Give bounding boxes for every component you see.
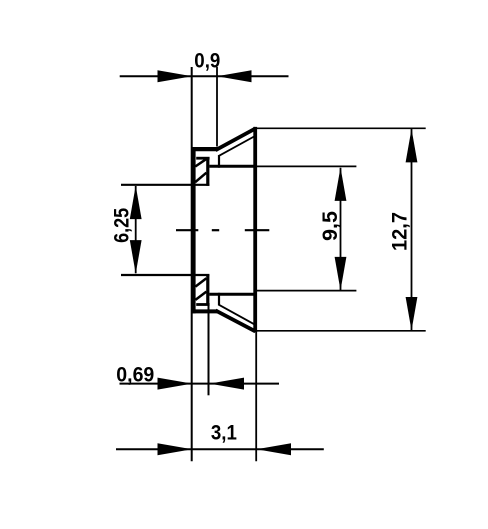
arrow 0,69 left — [158, 378, 193, 390]
label 12,7 — [388, 212, 411, 251]
arrow 6,25 bottom — [130, 240, 142, 274]
label 6,25 — [110, 208, 133, 243]
arrow 12,7 bottom — [406, 297, 418, 331]
arrow 9,5 top — [335, 167, 347, 201]
svg-text:0,9: 0,9 — [194, 50, 220, 73]
arrow 3,1 left — [158, 443, 193, 455]
arrow 3,1 right — [257, 443, 291, 455]
bottom face — [192, 309, 217, 313]
hatch upper band — [195, 159, 206, 182]
svg-text:3,1: 3,1 — [211, 422, 237, 445]
dimension line 0,9 — [120, 75, 289, 77]
dimension line 9,5 — [340, 168, 342, 290]
extension line 0,9 right — [216, 67, 218, 147]
svg-text:9,5: 9,5 — [319, 211, 342, 241]
outer cone lower — [216, 310, 256, 331]
extension line 3,1 right — [255, 332, 257, 462]
extension line dia 6,25 lower — [121, 274, 209, 276]
svg-text:6,25: 6,25 — [110, 208, 133, 243]
extension line dia 6,25 upper — [121, 184, 209, 186]
inner shoulder line upper — [196, 157, 209, 160]
top face — [192, 147, 217, 151]
sleeve wall right edge lower — [206, 275, 209, 306]
dimension line 6,25 — [135, 186, 137, 273]
arrow 0,9 right — [217, 70, 252, 82]
label 0,69 — [116, 364, 154, 387]
inner cone upper — [218, 136, 255, 156]
label 9,5 — [319, 211, 342, 241]
arrow 12,7 top — [406, 129, 418, 163]
arrow 6,25 top — [130, 186, 142, 220]
extension line left (0,9 / 0,69 / 3,1 common) — [191, 67, 193, 461]
dimension line 3,1 — [116, 448, 324, 450]
dimension line 0,69 — [120, 383, 280, 385]
bore 9,5 upper — [209, 165, 255, 168]
sleeve wall right edge upper — [206, 157, 209, 186]
arrow 9,5 bottom — [335, 257, 347, 291]
left face — [192, 147, 196, 313]
extension line dia 12,7 upper — [254, 127, 426, 129]
arrow 0,9 left — [158, 70, 193, 82]
hatch lower band — [195, 278, 206, 300]
step edge lower — [218, 293, 220, 305]
step edge upper — [218, 155, 220, 168]
svg-text:12,7: 12,7 — [388, 212, 411, 251]
arrow 0,69 right — [210, 378, 244, 390]
outer cone upper — [216, 128, 256, 150]
extension line dia 9,5 upper — [254, 165, 356, 167]
label 0,9 — [194, 50, 220, 73]
label 3,1 — [211, 422, 237, 445]
svg-text:0,69: 0,69 — [116, 364, 154, 387]
center line — [176, 229, 269, 231]
right face — [253, 127, 257, 332]
extension line dia 9,5 lower — [254, 290, 356, 292]
extension line 0,69 right — [208, 303, 210, 395]
bore 9,5 lower — [209, 293, 255, 296]
dimension line 12,7 — [411, 129, 413, 330]
extension line dia 12,7 lower — [254, 330, 426, 332]
inner cone lower — [218, 304, 255, 324]
inner shoulder line lower — [196, 303, 209, 306]
